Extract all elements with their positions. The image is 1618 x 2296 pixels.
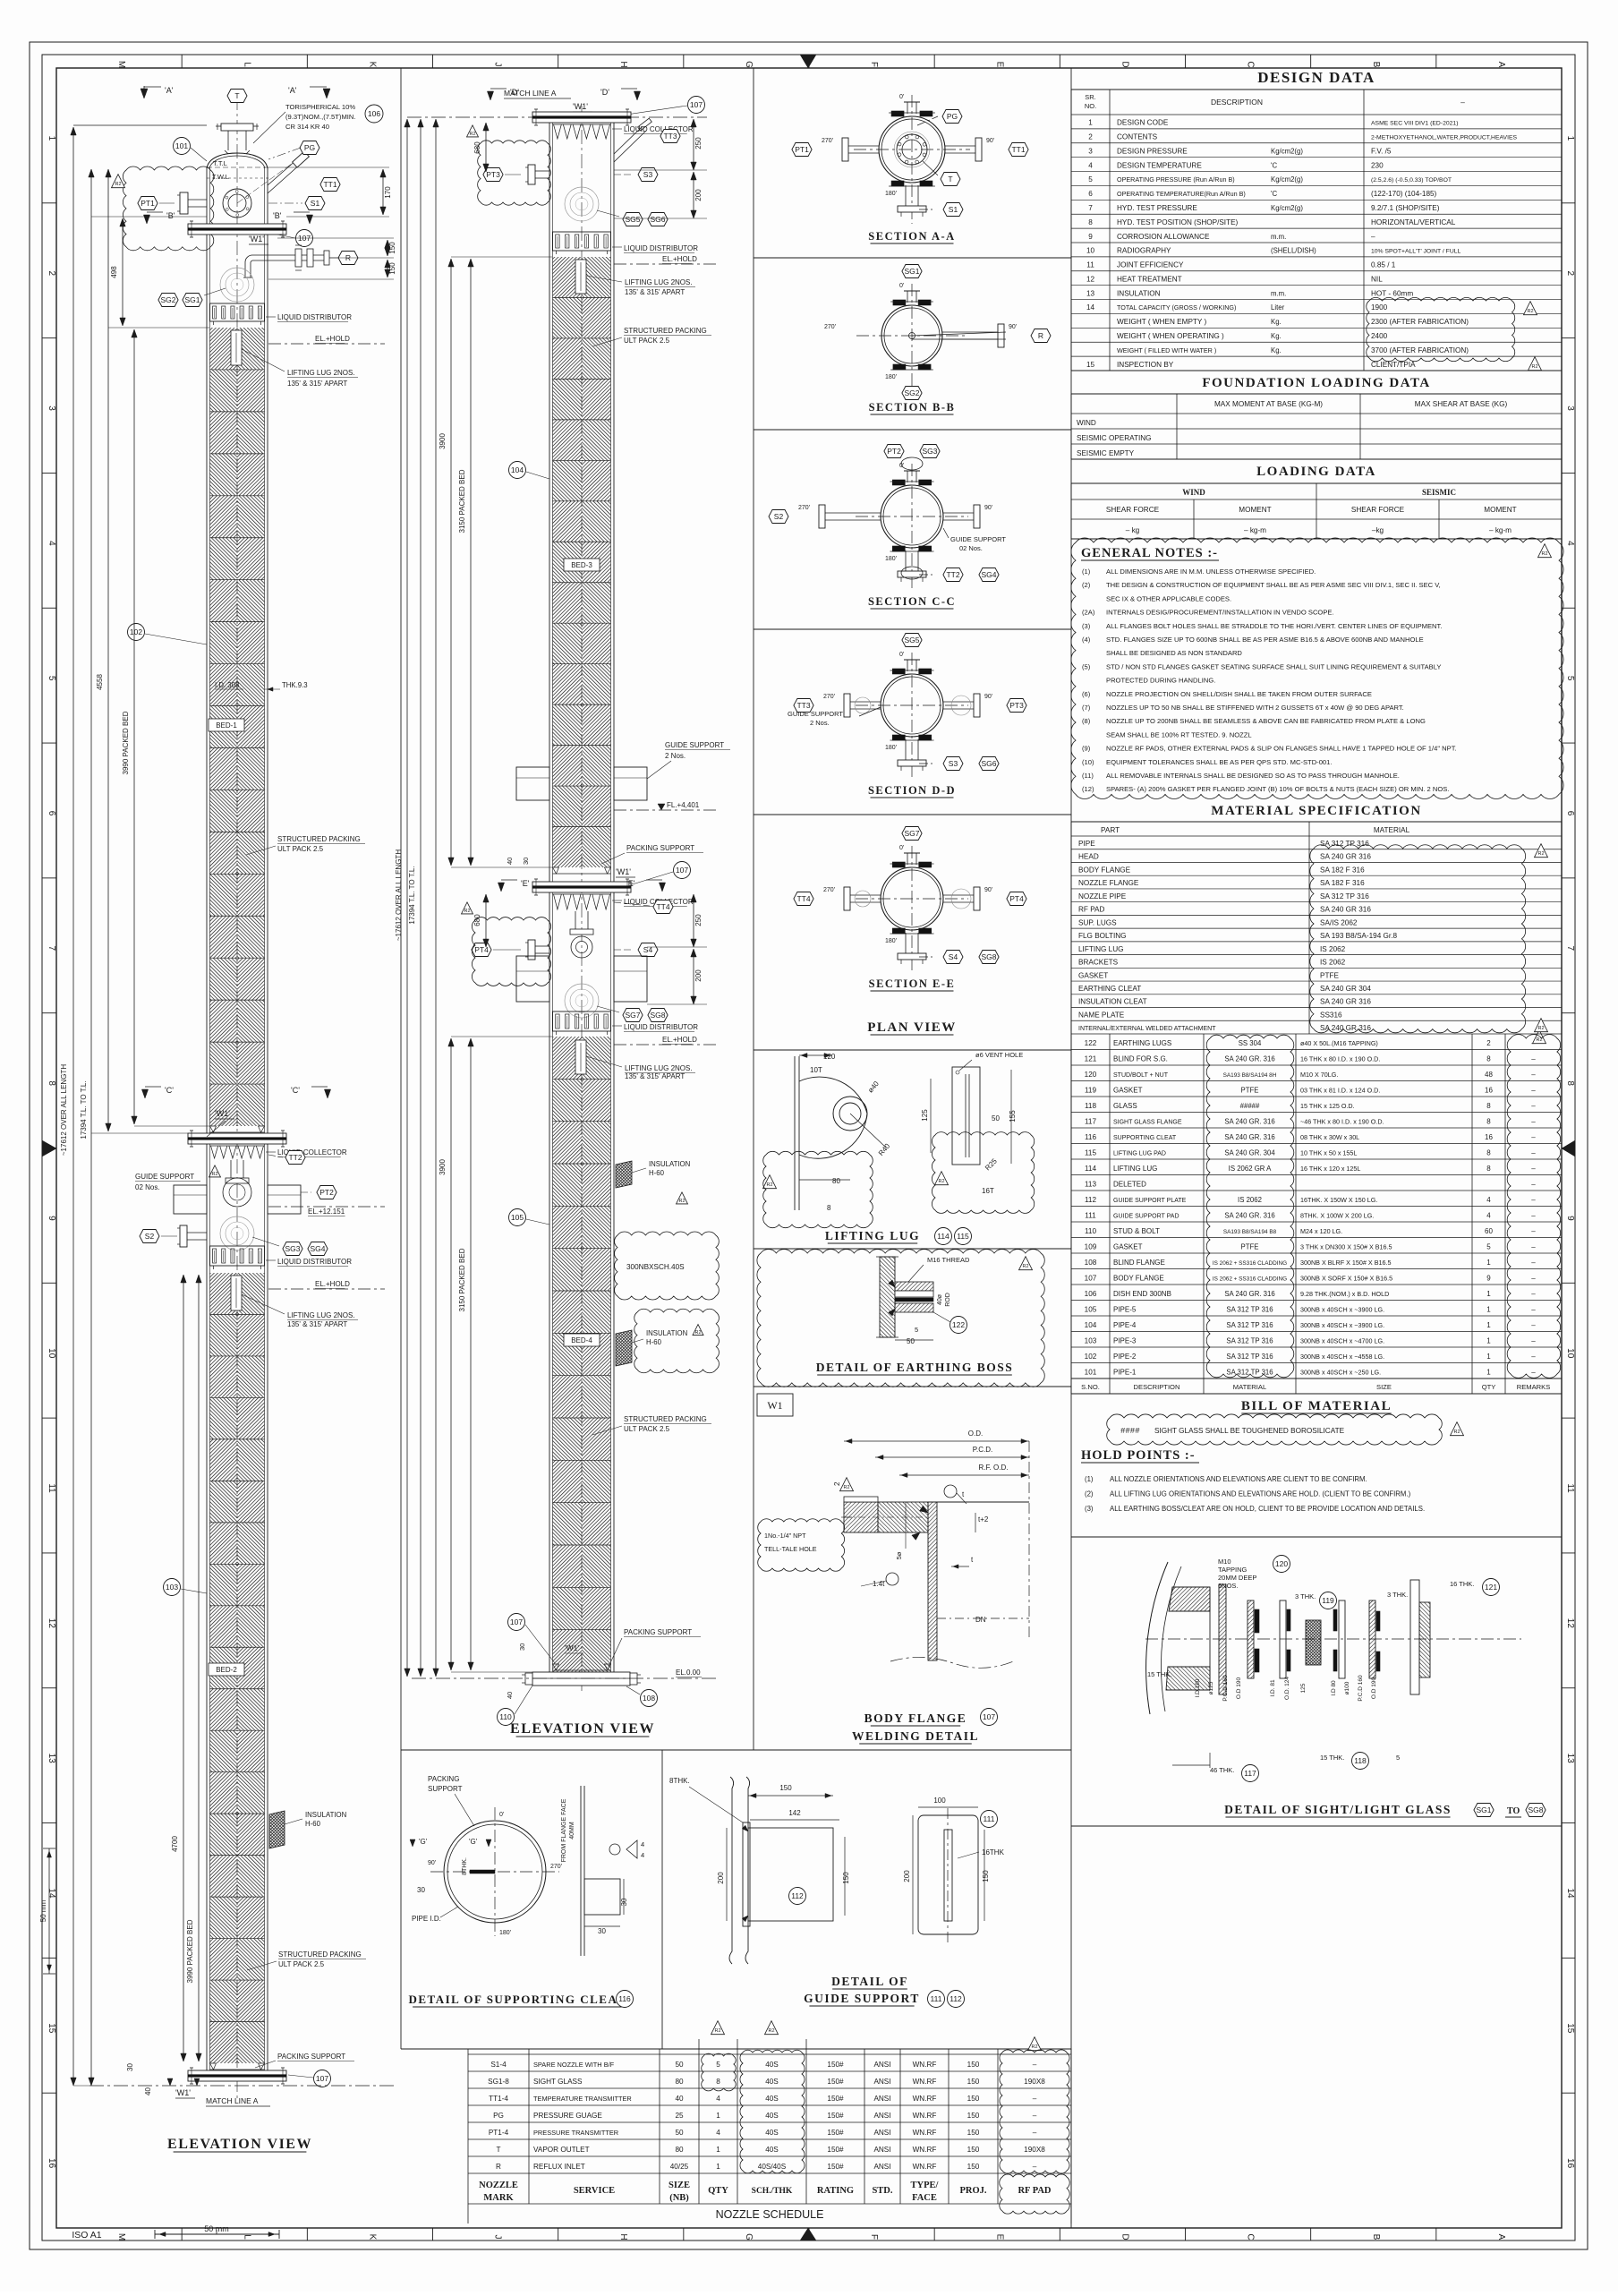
nozzle T top flange (216, 90, 259, 155)
svg-text:PIPE-3: PIPE-3 (1113, 1336, 1137, 1344)
svg-text:135' & 315' APART: 135' & 315' APART (625, 288, 685, 296)
svg-text:SG1: SG1 (1476, 1805, 1491, 1814)
svg-text:SA 240 GR. 316: SA 240 GR. 316 (1224, 1211, 1274, 1219)
svg-text:LIFTING LUG: LIFTING LUG (825, 1229, 920, 1242)
svg-text:DESIGN TEMPERATURE: DESIGN TEMPERATURE (1117, 161, 1202, 169)
svg-text:S1: S1 (311, 199, 320, 208)
svg-text:S1-4: S1-4 (490, 2061, 507, 2069)
svg-text:NIL: NIL (1371, 275, 1383, 283)
svg-text:3700 (AFTER FABRICATION): 3700 (AFTER FABRICATION) (1371, 346, 1469, 354)
structured packing label bed2 (247, 1950, 366, 1970)
svg-text:F: F (869, 2234, 879, 2240)
svg-text:GASKET: GASKET (1078, 971, 1108, 979)
svg-text:9: 9 (1486, 1274, 1491, 1282)
svg-text:STRUCTURED PACKING: STRUCTURED PACKING (624, 1415, 707, 1423)
svg-text:PT3: PT3 (1009, 701, 1024, 710)
svg-text:PACKING SUPPORT: PACKING SUPPORT (277, 2053, 345, 2061)
svg-text:90': 90' (428, 1860, 436, 1866)
svg-text:I.D. 81: I.D. 81 (1270, 1679, 1276, 1697)
svg-text:ANSI: ANSI (873, 2163, 890, 2171)
PT2 nozzle and labels (209, 1165, 386, 1216)
svg-text:EL.+HOLD: EL.+HOLD (662, 255, 697, 263)
svg-text:117: 117 (1244, 1769, 1256, 1778)
svg-text:–: – (1531, 1305, 1536, 1313)
svg-text:ø100: ø100 (1344, 1681, 1350, 1694)
svg-text:BED-4: BED-4 (571, 1336, 592, 1344)
svg-text:TORISPHERICAL 10%: TORISPHERICAL 10% (285, 103, 355, 111)
svg-text:90': 90' (984, 887, 992, 893)
svg-text:NOZZLE PIPE: NOZZLE PIPE (1078, 892, 1127, 900)
svg-text:5: 5 (1565, 676, 1575, 681)
svg-text:S4: S4 (949, 952, 958, 961)
svg-text:R2: R2 (464, 909, 470, 914)
svg-text:MATERIAL: MATERIAL (1374, 826, 1410, 834)
svg-text:STRUCTURED PACKING: STRUCTURED PACKING (624, 327, 707, 335)
svg-text:90': 90' (984, 694, 992, 700)
svg-text:SHEAR FORCE: SHEAR FORCE (1106, 506, 1160, 514)
svg-text:SG1: SG1 (184, 295, 200, 304)
svg-text:40S: 40S (765, 2061, 779, 2069)
svg-text:10: 10 (47, 1348, 56, 1359)
svg-text:9: 9 (1088, 233, 1093, 241)
svg-text:46 THK.: 46 THK. (1210, 1766, 1234, 1774)
svg-text:200: 200 (694, 189, 703, 201)
svg-text:4: 4 (47, 541, 56, 546)
svg-text:180': 180' (885, 938, 897, 944)
svg-text:O.D.: O.D. (968, 1430, 983, 1438)
svg-text:INSULATION: INSULATION (649, 1160, 690, 1168)
svg-text:40MM: 40MM (569, 1822, 575, 1839)
svg-text:4: 4 (716, 2095, 720, 2103)
svg-text:RATING: RATING (817, 2186, 854, 2196)
svg-text:ISO A1: ISO A1 (72, 2230, 101, 2241)
svg-text:R2: R2 (694, 1330, 701, 1336)
cloud at PT3 (467, 125, 551, 205)
svg-text:E: E (994, 62, 1004, 68)
svg-text:SA 312 TP 316: SA 312 TP 316 (1226, 1321, 1273, 1329)
svg-text:–kg: –kg (1372, 526, 1384, 534)
svg-text:30: 30 (598, 1927, 606, 1935)
svg-text:1900: 1900 (1371, 303, 1388, 312)
svg-text:4: 4 (716, 2129, 720, 2137)
svg-text:REMARKS: REMARKS (1517, 1383, 1551, 1391)
svg-text:EL.+HOLD: EL.+HOLD (662, 1036, 697, 1044)
svg-text:–: – (1531, 1148, 1536, 1157)
svg-text:PROTECTED DURING HANDLING.: PROTECTED DURING HANDLING. (1106, 677, 1215, 685)
svg-text:135' & 315' APART: 135' & 315' APART (287, 1320, 347, 1328)
svg-text:40S: 40S (765, 2078, 779, 2086)
I.D. 308 THK label (215, 681, 308, 691)
svg-text:–: – (1460, 98, 1465, 107)
svg-text:9: 9 (47, 1216, 56, 1221)
svg-text:SG4: SG4 (981, 570, 996, 579)
svg-text:135' & 315' APART: 135' & 315' APART (625, 1072, 685, 1080)
lifting lug plate in bed1 (231, 330, 358, 388)
svg-text:1: 1 (716, 2112, 720, 2120)
svg-text:PG: PG (947, 112, 958, 121)
svg-text:WEIGHT ( FILLED WITH W: WEIGHT ( FILLED WITH WATER ) (1117, 346, 1216, 354)
svg-text:WN.RF: WN.RF (913, 2112, 937, 2120)
svg-text:7: 7 (1088, 204, 1093, 212)
svg-text:P.C.D 160: P.C.D 160 (1222, 1675, 1229, 1702)
ELEVATION VIEW title column2 (510, 1721, 655, 1737)
svg-text:WIND: WIND (1077, 419, 1096, 427)
svg-text:TT2: TT2 (946, 570, 959, 579)
svg-text:ASME SEC VIII DIV1 (ED-202: ASME SEC VIII DIV1 (ED-2021) (1371, 121, 1458, 127)
W1 label box (757, 1394, 793, 1416)
svg-text:DETAIL OF SIGHT/LIGHT GLASS: DETAIL OF SIGHT/LIGHT GLASS (1224, 1803, 1452, 1816)
svg-text:I.D.180: I.D.180 (1195, 1678, 1201, 1697)
svg-text:SG5: SG5 (625, 215, 640, 224)
balloon 103 (164, 1579, 208, 1596)
svg-text:'W1': 'W1' (616, 867, 631, 876)
svg-text:INTERNAL/EXTERNAL WELDED ATT: INTERNAL/EXTERNAL WELDED ATTACHMENT (1078, 1026, 1216, 1032)
column2 bottom flange EL 0.00 (412, 1614, 716, 1726)
svg-text:LIFTING LUG: LIFTING LUG (1113, 1165, 1157, 1173)
svg-text:SECTION B-B: SECTION B-B (869, 401, 956, 414)
svg-text:6NOS.: 6NOS. (1218, 1582, 1239, 1590)
SG7 SG8 ghost column2 (565, 984, 668, 1022)
svg-text:H: H (618, 2233, 628, 2240)
svg-text:80: 80 (675, 2146, 684, 2154)
svg-text:8: 8 (1486, 1117, 1491, 1125)
svg-text:150#: 150# (827, 2129, 844, 2137)
nozzle R with elbow (243, 245, 358, 277)
svg-text:– kg-m: – kg-m (1489, 526, 1512, 534)
section D-D (788, 634, 1026, 798)
svg-text:16: 16 (47, 2158, 56, 2169)
svg-text:W1: W1 (767, 1399, 782, 1412)
svg-text:–: – (1531, 1071, 1536, 1079)
svg-text:L: L (242, 2234, 251, 2240)
svg-text:4: 4 (1486, 1196, 1491, 1204)
svg-text:2: 2 (833, 1481, 841, 1486)
svg-text:1: 1 (1486, 1368, 1491, 1376)
svg-text:EARTHING CLEAT: EARTHING CLEAT (1078, 985, 1141, 993)
svg-text:DETAIL OF EARTHING BOSS: DETAIL OF EARTHING BOSS (816, 1361, 1013, 1374)
svg-text:680: 680 (473, 914, 481, 926)
svg-text:NAME PLATE: NAME PLATE (1078, 1011, 1125, 1019)
svg-text:SA193 B8/SA194 B8: SA193 B8/SA194 B8 (1223, 1229, 1277, 1235)
svg-text:8: 8 (1088, 218, 1093, 226)
svg-text:S3: S3 (643, 170, 653, 179)
svg-text:107: 107 (510, 1617, 523, 1626)
svg-text:SG2: SG2 (904, 388, 919, 397)
svg-text:FROM FLANGE FACE: FROM FLANGE FACE (561, 1798, 567, 1862)
svg-text:ROD: ROD (945, 1293, 951, 1307)
svg-text:SIGHT GLASS FLANGE: SIGHT GLASS FLANGE (1113, 1119, 1182, 1125)
svg-text:190X8: 190X8 (1024, 2146, 1045, 2154)
svg-text:LIQUID DISTRIBUTOR: LIQUID DISTRIBUTOR (624, 244, 698, 252)
svg-text:DESIGN DATA: DESIGN DATA (1257, 69, 1375, 86)
left band 50mm scale mark (39, 1848, 55, 1974)
svg-text:109: 109 (1085, 1242, 1097, 1250)
svg-text:10: 10 (1565, 1348, 1575, 1359)
svg-text:'C': 'C' (291, 1086, 300, 1095)
svg-text:SA 312 TP 316: SA 312 TP 316 (1226, 1305, 1273, 1313)
svg-text:#####: ##### (1240, 1102, 1260, 1110)
svg-text:108: 108 (643, 1694, 655, 1703)
column 1 shell walls upper (207, 167, 268, 1133)
svg-text:NOZZLES UP TO 50 NB SHALL: NOZZLES UP TO 50 NB SHALL BE STIFFENED W… (1106, 704, 1404, 712)
svg-text:106: 106 (1085, 1290, 1097, 1298)
svg-text:03 THK x 81 I.D. x 124: 03 THK x 81 I.D. x 124 O.D. (1300, 1086, 1380, 1094)
svg-text:R2: R2 (1031, 2044, 1037, 2050)
svg-text:SG8: SG8 (1528, 1805, 1543, 1814)
svg-text:(4): (4) (1082, 636, 1091, 644)
svg-text:STD. FLANGES SIZE UP TO 6: STD. FLANGES SIZE UP TO 600NB SHALL BE A… (1106, 636, 1424, 644)
svg-text:SG8: SG8 (981, 952, 996, 961)
svg-text:SS 304: SS 304 (1239, 1039, 1262, 1047)
earthing boss detail (757, 1250, 1044, 1387)
svg-text:122: 122 (1085, 1039, 1097, 1047)
detail of supporting cleat (408, 1775, 644, 2008)
svg-text:M: M (116, 61, 126, 68)
balloon 104 (509, 462, 550, 480)
svg-text:TEMPERATURE TRANSMITTER: TEMPERATURE TRANSMITTER (533, 2095, 632, 2103)
svg-text:PG: PG (304, 143, 315, 152)
svg-text:40: 40 (144, 2087, 152, 2095)
LOADING DATA table (1071, 465, 1562, 539)
svg-text:STRUCTURED PACKING: STRUCTURED PACKING (278, 1950, 362, 1959)
svg-text:INSPECTION BY: INSPECTION BY (1117, 361, 1174, 369)
svg-text:100: 100 (933, 1797, 946, 1805)
svg-text:THE DESIGN & CONSTRUCTION: THE DESIGN & CONSTRUCTION OF EQUIPMENT S… (1106, 581, 1441, 589)
svg-text:(3): (3) (1082, 622, 1091, 630)
svg-text:3: 3 (1565, 405, 1575, 411)
svg-text:–: – (1033, 2095, 1037, 2103)
svg-text:NOZZLE: NOZZLE (479, 2181, 518, 2190)
svg-text:INSULATION: INSULATION (305, 1811, 346, 1819)
svg-text:EL.+12.151: EL.+12.151 (308, 1208, 345, 1216)
svg-text:####: #### (1120, 1427, 1140, 1436)
svg-text:DESCRIPTION: DESCRIPTION (1211, 98, 1263, 107)
svg-text:25: 25 (675, 2112, 684, 2120)
svg-text:GASKET: GASKET (1113, 1086, 1143, 1094)
svg-text:105: 105 (1085, 1305, 1097, 1313)
guide supports at PT2 level (135, 1173, 301, 1214)
svg-text:R2: R2 (1022, 1264, 1028, 1269)
svg-text:90': 90' (1009, 324, 1017, 330)
svg-text:16 THK x 80 I.D. x 190: 16 THK x 80 I.D. x 190 O.D. (1300, 1054, 1380, 1063)
liquid distributor top column1 (210, 303, 353, 325)
svg-text:11: 11 (1565, 1483, 1575, 1493)
svg-text:Kg.: Kg. (1271, 318, 1282, 326)
svg-text:Kg/cm2(g): Kg/cm2(g) (1271, 147, 1303, 155)
svg-text:MATERIAL SPECIFICATION: MATERIAL SPECIFICATION (1211, 804, 1421, 818)
svg-text:R.F. O.D.: R.F. O.D. (979, 1464, 1009, 1472)
svg-text:'G': 'G' (419, 1838, 428, 1846)
svg-text:1: 1 (1486, 1321, 1491, 1329)
svg-text:107: 107 (690, 100, 703, 109)
svg-text:STRUCTURED PACKING: STRUCTURED PACKING (277, 835, 361, 843)
svg-text:5: 5 (915, 1326, 918, 1334)
svg-text:40: 40 (506, 1692, 514, 1699)
svg-text:60: 60 (1485, 1227, 1493, 1235)
svg-text:111: 111 (931, 1994, 942, 2003)
svg-text:GUIDE SUPPORT: GUIDE SUPPORT (804, 1992, 920, 2005)
svg-text:K: K (367, 62, 377, 68)
svg-text:135' & 315' APART: 135' & 315' APART (287, 380, 347, 388)
svg-text:8THK.: 8THK. (669, 1777, 690, 1785)
svg-text:TT3: TT3 (663, 132, 677, 141)
svg-text:R2: R2 (115, 182, 121, 187)
svg-text:SIGHT GLASS SHALL BE TOUGH: SIGHT GLASS SHALL BE TOUGHENED BOROSILIC… (1154, 1427, 1345, 1435)
svg-text:SUPPORTING CLEAT: SUPPORTING CLEAT (1113, 1135, 1177, 1141)
insulation patch column1 (269, 1811, 346, 1848)
BED-1 label (209, 719, 244, 731)
svg-text:Kg/cm2(g): Kg/cm2(g) (1271, 204, 1303, 212)
svg-text:SA 312 TP 316: SA 312 TP 316 (1226, 1336, 1273, 1344)
lifting lug plate bed4 (575, 1040, 695, 1080)
svg-text:50 mm: 50 mm (204, 2224, 229, 2233)
svg-text:FOUNDATION LOADING DATA: FOUNDATION LOADING DATA (1202, 376, 1430, 390)
svg-text:SA/IS 2062: SA/IS 2062 (1320, 918, 1358, 926)
svg-text:SA 312 TP 316: SA 312 TP 316 (1320, 840, 1369, 848)
svg-text:R: R (1038, 331, 1043, 340)
svg-text:G: G (744, 61, 754, 68)
svg-text:PIPE-1: PIPE-1 (1113, 1368, 1137, 1376)
liquid distributor col1 mid (210, 1246, 353, 1269)
svg-text:R2: R2 (843, 1485, 849, 1490)
svg-text:108: 108 (1085, 1259, 1097, 1267)
svg-text:CONTENTS: CONTENTS (1117, 133, 1158, 141)
svg-text:30: 30 (518, 1643, 526, 1651)
svg-text:t+2: t+2 (978, 1515, 989, 1524)
elevation view 2 : column pipe-3/4/5 (407, 88, 707, 1692)
svg-text:WN.RF: WN.RF (913, 2095, 937, 2103)
svg-text:TOTAL CAPACITY (GROSS / WO: TOTAL CAPACITY (GROSS / WORKING) (1117, 303, 1236, 312)
svg-text:119: 119 (1322, 1596, 1334, 1605)
svg-text:HORIZONTAL/VERTICAL: HORIZONTAL/VERTICAL (1371, 218, 1456, 226)
svg-text:'A': 'A' (288, 86, 297, 95)
body flange W1 column1 middle (188, 1109, 286, 1147)
svg-text:180': 180' (885, 374, 897, 380)
svg-text:WELDING DETAIL: WELDING DETAIL (852, 1729, 979, 1743)
svg-text:SHALL BE DESIGNED AS NON: SHALL BE DESIGNED AS NON STANDARD (1106, 649, 1242, 657)
svg-text:8: 8 (1486, 1102, 1491, 1110)
svg-text:ULT PACK 2.5: ULT PACK 2.5 (277, 845, 324, 853)
svg-text:ALL REMOVABLE INTERNALS SHA: ALL REMOVABLE INTERNALS SHALL BE DESIGNE… (1106, 772, 1400, 780)
svg-text:2-METHOXYETHANOL,WATER,PRODUCT: 2-METHOXYETHANOL,WATER,PRODUCT,HEAVIES (1371, 135, 1517, 141)
svg-text:BED-2: BED-2 (216, 1666, 237, 1674)
svg-text:'C': 'C' (165, 1086, 174, 1095)
svg-text:–: – (1531, 1102, 1536, 1110)
svg-text:2 Nos.: 2 Nos. (665, 752, 686, 760)
svg-text:107: 107 (983, 1712, 995, 1721)
svg-text:1: 1 (1486, 1305, 1491, 1313)
svg-text:TT1: TT1 (323, 180, 336, 189)
svg-text:ALL EARTHING BOSS/CLEAT ARE: ALL EARTHING BOSS/CLEAT ARE ON HOLD, CLI… (1110, 1505, 1425, 1513)
svg-text:SEISMIC: SEISMIC (1422, 488, 1456, 497)
column 2 shell walls upper (549, 123, 614, 892)
svg-text:113: 113 (1085, 1180, 1096, 1188)
svg-text:EL.+HOLD: EL.+HOLD (315, 335, 350, 343)
svg-text:BILL OF MATERIAL: BILL OF MATERIAL (1241, 1399, 1392, 1413)
svg-text:TO: TO (1507, 1806, 1520, 1816)
svg-text:H-60: H-60 (646, 1338, 662, 1346)
svg-text:R2: R2 (1527, 309, 1533, 314)
svg-text:106: 106 (368, 109, 380, 118)
svg-text:(SHELL/DISH): (SHELL/DISH) (1271, 247, 1316, 255)
svg-text:SIGHT GLASS: SIGHT GLASS (533, 2078, 583, 2086)
svg-text:115: 115 (957, 1232, 969, 1241)
svg-text:3900: 3900 (439, 1159, 447, 1175)
svg-text:150: 150 (967, 2163, 980, 2171)
svg-text:P.C.D.: P.C.D. (973, 1446, 993, 1454)
sight glass SG1 SG2 ghost (158, 268, 254, 307)
svg-text:LIFTING LUG PAD: LIFTING LUG PAD (1113, 1150, 1166, 1157)
svg-text:R2: R2 (938, 1179, 944, 1184)
insulation patches + clouds column2 (616, 1160, 690, 1204)
svg-text:180': 180' (885, 745, 897, 751)
lifting lug plate bed3 (575, 260, 695, 296)
svg-text:HOLD POINTS :-: HOLD POINTS :- (1081, 1448, 1196, 1463)
svg-text:111: 111 (984, 1814, 995, 1823)
svg-text:TAPPING: TAPPING (1218, 1566, 1248, 1574)
hex labels TT1 S1 PG and leaders (174, 103, 384, 210)
svg-text:MOMENT: MOMENT (1239, 506, 1271, 514)
svg-text:SEISMIC EMPTY: SEISMIC EMPTY (1077, 449, 1135, 457)
svg-text:LIFTING LUG: LIFTING LUG (1078, 945, 1124, 953)
svg-text:114: 114 (1085, 1165, 1096, 1173)
svg-text:MATCH LINE A: MATCH LINE A (504, 89, 557, 98)
svg-text:T.W.L: T.W.L (212, 173, 229, 181)
svg-text:115: 115 (1085, 1148, 1096, 1157)
svg-text:DESIGN CODE: DESIGN CODE (1117, 119, 1169, 127)
svg-text:S4: S4 (643, 945, 653, 954)
svg-text:SA 312 TP 316: SA 312 TP 316 (1320, 892, 1369, 900)
SG5 SG6 ghost column2 (565, 187, 668, 226)
svg-text:–: – (1531, 1054, 1536, 1063)
svg-text:16THK. X 150W X 150 LG.: 16THK. X 150W X 150 LG. (1300, 1196, 1377, 1204)
svg-text:SCH./THK: SCH./THK (752, 2187, 793, 2196)
svg-text:15: 15 (1086, 361, 1095, 369)
nozzle S2 (140, 1225, 207, 1247)
svg-text:SA 240 GR. 304: SA 240 GR. 304 (1224, 1148, 1275, 1157)
svg-text:PTFE: PTFE (1241, 1086, 1259, 1094)
BED-3 label (564, 559, 600, 571)
svg-text:STUD & BOLT: STUD & BOLT (1113, 1227, 1160, 1235)
svg-text:15 THK.: 15 THK. (1320, 1754, 1344, 1762)
svg-text:SG5: SG5 (904, 636, 919, 644)
svg-text:150#: 150# (827, 2163, 844, 2171)
svg-text:K: K (367, 2234, 377, 2241)
svg-text:SA 240 GR 316: SA 240 GR 316 (1320, 906, 1371, 914)
svg-text:R: R (496, 2163, 501, 2171)
svg-text:3 THK.: 3 THK. (1295, 1592, 1316, 1600)
svg-text:REFLUX INLET: REFLUX INLET (533, 2163, 585, 2171)
svg-text:Kg/cm2(g): Kg/cm2(g) (1271, 175, 1303, 184)
svg-text:40ø: 40ø (937, 1293, 943, 1305)
svg-text:(11): (11) (1082, 772, 1094, 780)
svg-text:PT1: PT1 (141, 199, 155, 208)
EL+4,401 level (614, 801, 716, 810)
svg-text:(7): (7) (1082, 704, 1091, 712)
svg-text:6: 6 (1088, 190, 1093, 198)
svg-text:15 THK x 125 O.D.: 15 THK x 125 O.D. (1300, 1102, 1355, 1110)
svg-text:RADIOGRAPHY: RADIOGRAPHY (1117, 247, 1171, 255)
svg-text:30: 30 (522, 858, 530, 865)
svg-text:155: 155 (1009, 1110, 1017, 1122)
svg-text:3 THK x DN300 X 150# X: 3 THK x DN300 X 150# X B16.5 (1300, 1242, 1392, 1250)
svg-text:SEC IX & OTHER APPLICABLE: SEC IX & OTHER APPLICABLE CODES. (1106, 594, 1231, 602)
svg-text:SECTION E-E: SECTION E-E (869, 977, 956, 990)
svg-text:107: 107 (676, 866, 688, 875)
svg-text:SA 182 F 316: SA 182 F 316 (1320, 866, 1365, 874)
svg-text:SIZE: SIZE (668, 2181, 690, 2190)
svg-text:150: 150 (967, 2146, 980, 2154)
